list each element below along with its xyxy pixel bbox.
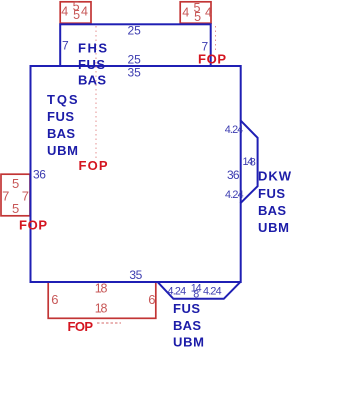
right bay (DKW) outline <box>240 120 257 203</box>
svg-text:UBM: UBM <box>173 335 204 350</box>
svg-text:BAS: BAS <box>173 318 201 333</box>
svg-text:FUS: FUS <box>78 57 105 72</box>
svg-text:36: 36 <box>227 168 240 182</box>
svg-text:FUS: FUS <box>258 186 285 201</box>
bottom bay outline <box>158 282 240 299</box>
svg-text:FHS: FHS <box>78 40 107 55</box>
svg-text:BAS: BAS <box>47 126 75 141</box>
svg-text:25: 25 <box>128 52 142 66</box>
svg-text:5: 5 <box>73 8 80 22</box>
svg-text:35: 35 <box>129 268 142 282</box>
carport box top-left <box>60 2 91 23</box>
svg-text:8: 8 <box>193 289 199 301</box>
leader dashed line top-right <box>215 26 217 52</box>
carport box bottom <box>48 282 156 318</box>
svg-text:5: 5 <box>12 176 19 191</box>
svg-text:4.24: 4.24 <box>203 285 222 297</box>
svg-text:4.24: 4.24 <box>225 189 244 201</box>
main building outline <box>31 66 241 282</box>
svg-text:4.24: 4.24 <box>168 285 187 297</box>
svg-text:FOP: FOP <box>68 319 94 334</box>
svg-text:18: 18 <box>95 302 108 316</box>
leader dashed line bottom <box>97 322 121 324</box>
svg-text:6: 6 <box>148 292 155 307</box>
svg-text:7: 7 <box>202 40 209 54</box>
svg-text:4.24: 4.24 <box>225 124 244 136</box>
svg-text:36: 36 <box>33 168 46 182</box>
svg-text:FUS: FUS <box>47 109 74 124</box>
svg-text:25: 25 <box>128 23 142 37</box>
carport box top-right <box>180 2 211 23</box>
svg-text:4: 4 <box>205 6 212 20</box>
svg-text:18: 18 <box>95 282 108 296</box>
svg-text:7: 7 <box>62 38 69 52</box>
svg-text:8: 8 <box>250 157 256 169</box>
svg-text:FOP: FOP <box>19 218 47 233</box>
svg-text:UBM: UBM <box>47 143 78 158</box>
top extension outline <box>60 24 211 66</box>
carport box left <box>1 174 30 216</box>
svg-text:BAS: BAS <box>258 203 286 218</box>
svg-text:FOP: FOP <box>198 52 226 67</box>
svg-text:BAS: BAS <box>78 73 106 88</box>
svg-text:4: 4 <box>81 4 88 18</box>
leader dashed line top-left <box>95 26 97 159</box>
svg-text:FUS: FUS <box>173 301 200 316</box>
svg-text:6: 6 <box>51 292 58 307</box>
svg-text:4: 4 <box>182 6 189 20</box>
svg-text:35: 35 <box>128 65 142 79</box>
svg-text:UBM: UBM <box>258 220 289 235</box>
svg-text:FOP: FOP <box>79 158 108 173</box>
svg-text:5: 5 <box>194 10 201 24</box>
svg-text:DKW: DKW <box>258 169 292 184</box>
svg-text:TQS: TQS <box>47 92 78 107</box>
svg-text:5: 5 <box>12 201 19 216</box>
svg-text:7: 7 <box>22 189 29 204</box>
svg-text:4: 4 <box>61 4 68 18</box>
svg-text:7: 7 <box>2 189 9 204</box>
